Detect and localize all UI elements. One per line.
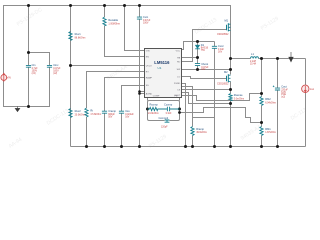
svg-text:1.87kOhm: 1.87kOhm	[265, 132, 276, 134]
resistor Ruv1	[69, 32, 86, 41]
wire agnd stubs	[140, 91, 145, 93]
svg-text:Rramp: Rramp	[196, 127, 204, 131]
wire uvlo divider chain	[70, 6, 72, 147]
svg-text:Iout: Iout	[310, 88, 314, 91]
node HB	[196, 56, 199, 59]
wire Rt bottom	[86, 117, 88, 147]
transistor M2	[217, 70, 231, 85]
wire L1 to out rail	[259, 58, 306, 60]
resistor Renable	[103, 17, 120, 26]
wire RAMP	[105, 78, 145, 112]
svg-text:VOUT: VOUT	[174, 95, 181, 97]
wire comp box left drop	[147, 98, 149, 101]
wire comp box right drop	[179, 98, 181, 101]
resistor Rramp	[191, 127, 207, 136]
wire Cvcc bottom rail	[214, 49, 216, 147]
node vout rail	[260, 57, 263, 60]
svg-text:Rfb1: Rfb1	[265, 127, 271, 131]
svg-text:Cvin: Cvin	[143, 15, 149, 19]
svg-text:CSD18532: CSD18532	[217, 34, 229, 36]
capacitor Cvin	[137, 15, 151, 24]
resistor Rsense	[229, 93, 244, 101]
svg-text:AGND: AGND	[146, 92, 153, 95]
wire SW pin	[182, 69, 231, 71]
svg-text:U1: U1	[158, 66, 162, 70]
wire rramp link	[193, 117, 215, 119]
wire VIN pin	[125, 6, 145, 51]
svg-text:15.4A: 15.4A	[250, 63, 257, 66]
wire RT	[87, 72, 145, 109]
node input gnd	[27, 105, 30, 108]
node dots top bus	[27, 4, 279, 148]
node vout sense	[260, 92, 263, 95]
node fb tap	[260, 121, 263, 124]
svg-text:Rsense: Rsense	[234, 93, 243, 97]
svg-text:75V: 75V	[201, 50, 206, 52]
svg-text:(x2): (x2)	[281, 97, 285, 99]
wire Rramp bottom	[192, 136, 194, 147]
wire D1 cathode to Cboot	[197, 49, 199, 64]
wire Cout bottom	[277, 90, 279, 147]
capacitor Ccomp2	[159, 116, 170, 128]
resistor Ruv2	[69, 109, 86, 118]
wire UVLO tap to chip	[71, 65, 145, 67]
svg-text:Cin: Cin	[32, 63, 36, 67]
svg-text:120pF: 120pF	[161, 126, 168, 128]
svg-text:17.8kOhm: 17.8kOhm	[90, 114, 101, 116]
svg-text:3.0mOhm: 3.0mOhm	[234, 98, 244, 100]
wire PGND	[182, 84, 186, 147]
resistor Rfb1	[260, 127, 276, 136]
comp network box	[148, 101, 180, 121]
capacitor Cinx	[47, 63, 61, 75]
svg-text:Cboot: Cboot	[201, 62, 208, 66]
capacitor Cramp	[102, 109, 117, 118]
node CSG	[229, 102, 232, 105]
voltage source VIN	[1, 73, 11, 82]
svg-text:LM5116: LM5116	[154, 60, 170, 65]
wire VCC jog	[182, 42, 215, 50]
svg-text:Ruv2: Ruv2	[75, 109, 82, 113]
node UVLO tap	[69, 64, 72, 67]
svg-text:16V: 16V	[125, 117, 130, 119]
wire Cinx branch	[29, 53, 50, 66]
wire D1 anode	[197, 42, 199, 46]
svg-text:COMP: COMP	[153, 95, 160, 97]
svg-text:D1: D1	[201, 43, 205, 47]
wire Renable top	[104, 6, 106, 18]
svg-text:Cout: Cout	[281, 85, 287, 89]
svg-text:49.9kOhm: 49.9kOhm	[196, 132, 207, 134]
wire FB to divider staircase	[180, 108, 262, 123]
resistor Rt	[85, 108, 101, 117]
node comp box	[146, 108, 149, 111]
svg-text:HO: HO	[177, 61, 181, 63]
wire LO to M2 gate	[182, 77, 227, 79]
svg-text:16V: 16V	[218, 52, 223, 54]
svg-text:M1: M1	[225, 18, 229, 22]
node CS	[229, 88, 232, 91]
wire CSG kelvin	[182, 93, 231, 104]
svg-text:UVLO: UVLO	[146, 65, 152, 67]
node SW L1	[229, 57, 232, 60]
transistor M1	[217, 18, 231, 36]
load Iout	[302, 85, 315, 92]
wire agnd rail	[139, 20, 141, 147]
svg-text:3.3nF: 3.3nF	[166, 113, 173, 115]
capacitor Ccomp	[160, 102, 180, 115]
svg-text:EN: EN	[146, 56, 149, 58]
svg-text:Css: Css	[125, 109, 130, 113]
diode D1	[195, 43, 209, 52]
svg-text:1.00MOhm: 1.00MOhm	[108, 24, 120, 26]
wire input ground bus	[4, 67, 50, 107]
wire Cvin top	[139, 6, 141, 18]
svg-text:Renable: Renable	[108, 18, 118, 22]
wire HO to M1 gate	[182, 30, 227, 62]
wire ground bus	[71, 146, 306, 148]
wire Cboot bottom	[197, 66, 199, 70]
svg-text:24.9kOhm: 24.9kOhm	[148, 113, 159, 115]
wire Cout top	[277, 59, 279, 89]
svg-text:Cvcc: Cvcc	[218, 44, 224, 48]
wire CS	[182, 89, 231, 91]
svg-text:(x2): (x2)	[53, 73, 57, 75]
svg-text:50V: 50V	[108, 117, 113, 119]
wire SW vertical M1 source to M2 drain	[230, 25, 232, 75]
svg-text:Ruv1: Ruv1	[75, 32, 82, 36]
wire Rsense bottom	[230, 101, 232, 147]
wire Cin bottom	[28, 67, 30, 107]
node input split	[27, 51, 30, 54]
svg-text:Rt: Rt	[90, 108, 93, 112]
svg-text:Rcomp: Rcomp	[150, 102, 159, 106]
svg-text:LO: LO	[177, 76, 180, 78]
wire between rfb	[261, 106, 263, 127]
wire Css bottom	[121, 114, 123, 147]
svg-text:Ccomp2: Ccomp2	[159, 116, 169, 120]
wire load branch	[305, 59, 307, 147]
svg-text:VCC: VCC	[176, 50, 181, 52]
wire VOUT sense	[182, 94, 262, 101]
wire EN to chip	[105, 26, 145, 57]
node VCC D1	[196, 40, 199, 43]
svg-text:Ccomp: Ccomp	[164, 102, 173, 106]
svg-text:86.6kOhm: 86.6kOhm	[75, 38, 86, 40]
resistor Rfb2	[260, 97, 276, 106]
wire DEMB to Rramp	[182, 87, 193, 127]
inductor L1	[250, 52, 258, 66]
ground input section	[15, 107, 20, 112]
svg-text:(x3): (x3)	[32, 73, 36, 75]
capacitor Cin	[26, 63, 38, 75]
svg-text:RAMP: RAMP	[146, 76, 153, 79]
svg-text:CSD18532: CSD18532	[217, 83, 229, 85]
svg-text:6.04kOhm: 6.04kOhm	[265, 102, 276, 104]
svg-text:100V: 100V	[143, 22, 149, 24]
capacitor Css	[119, 109, 134, 118]
wire top VIN bus + left edge + M1 drain drop	[4, 6, 231, 81]
svg-text:M2: M2	[224, 70, 228, 74]
svg-text:Cinx: Cinx	[53, 63, 59, 67]
wire rfb1 bottom	[261, 136, 263, 147]
wire Cvcc top	[214, 42, 216, 47]
svg-text:PGND: PGND	[174, 83, 181, 85]
node SW pin boot	[196, 68, 199, 71]
wire SW to L1	[231, 58, 251, 60]
wire Cin branch	[28, 6, 30, 66]
watermark	[8, 7, 308, 150]
vout probe arrow	[289, 52, 293, 62]
capacitor Cout	[273, 85, 289, 99]
svg-text:HB: HB	[177, 57, 181, 59]
capacitor Cboot	[195, 62, 209, 71]
svg-text:Cramp: Cramp	[108, 109, 116, 113]
svg-text:Rfb2: Rfb2	[265, 97, 271, 101]
node ground bus dots	[85, 145, 88, 148]
wire SS	[122, 86, 145, 112]
svg-text:VIN: VIN	[146, 50, 150, 52]
resistor Rcomp	[148, 102, 161, 115]
op-amp U1 LM5116 chip body	[145, 49, 182, 98]
capacitor Cvcc	[212, 44, 225, 53]
wire HB	[182, 57, 198, 59]
svg-text:CS: CS	[177, 89, 181, 91]
svg-text:VIN: VIN	[7, 78, 11, 80]
wire Cramp bottom	[104, 114, 106, 147]
svg-text:20.0kOhm: 20.0kOhm	[75, 115, 86, 117]
wire fb divider top	[261, 59, 263, 97]
svg-text:16V: 16V	[201, 69, 206, 71]
wire M2 source to Rsense	[230, 82, 232, 94]
node agnd stubs	[138, 90, 141, 93]
